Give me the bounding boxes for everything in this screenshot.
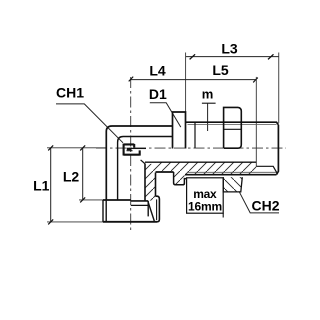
- body underside section outline: [156, 171, 174, 173]
- wire L2 extension: [79, 199, 103, 201]
- nut section top lines: [131, 200, 148, 202]
- label CH2: [239, 191, 280, 213]
- locknut facet line: [224, 128, 242, 130]
- dimension L1: [33, 145, 53, 224]
- svg-text:16mm: 16mm: [188, 199, 222, 213]
- wire L1 extension bottom: [47, 221, 103, 223]
- cone inner chamfer line: [156, 199, 158, 220]
- hatch horizontal body section: [145, 163, 256, 185]
- nut top edge: [103, 199, 131, 201]
- stud thread root line top: [188, 123, 277, 125]
- svg-text:D1: D1: [149, 86, 167, 102]
- hex CH1 profile: [173, 112, 186, 149]
- nut bottom edge: [103, 221, 157, 223]
- nut section vertical: [147, 201, 149, 217]
- stud thread root line bottom: [187, 171, 276, 173]
- dimension L4: [129, 63, 186, 82]
- retaining clip: [124, 144, 147, 156]
- body top-left outline with rounded corner: [106, 126, 172, 200]
- label m: [202, 87, 216, 131]
- svg-text:CH2: CH2: [251, 198, 279, 214]
- dimension L5: [186, 62, 258, 167]
- locknut top half: [224, 107, 242, 148]
- max 16mm box: [187, 178, 224, 218]
- hatch locknut section wedge CH2: [223, 177, 242, 192]
- body inner counterbore line: [118, 137, 173, 200]
- svg-text:CH1: CH1: [56, 85, 84, 101]
- stud top crest line: [186, 122, 279, 125]
- svg-text:L3: L3: [221, 40, 238, 56]
- hatch vertical branch wall section: [145, 164, 156, 201]
- hex bottom section outline: [174, 172, 187, 185]
- stud end face: [277, 125, 279, 175]
- stud bottom crest line: [185, 174, 277, 176]
- centerline horizontal axis: [96, 147, 286, 149]
- locknut section wedge outline: [223, 177, 242, 192]
- cone inner diagonal: [148, 201, 154, 221]
- thread start line: [194, 122, 196, 148]
- label D1: [149, 86, 181, 127]
- svg-text:m: m: [202, 87, 214, 102]
- centerline vertical axis: [130, 77, 132, 230]
- bore bottom line: [145, 161, 256, 163]
- svg-text:L5: L5: [212, 62, 229, 78]
- svg-text:L1: L1: [33, 177, 50, 193]
- branch wall left: [144, 164, 146, 201]
- branch wall right: [155, 173, 157, 197]
- cone outer profile: [156, 196, 160, 222]
- bore end step: [256, 166, 277, 173]
- dimension L3: [186, 40, 279, 123]
- dimension L2: [63, 145, 85, 202]
- svg-text:L4: L4: [149, 63, 166, 79]
- nut left face: [103, 200, 106, 222]
- wire L1 extension top: [47, 147, 106, 149]
- svg-text:L2: L2: [63, 168, 80, 184]
- bore corner chamfer: [141, 160, 146, 164]
- label CH1: [56, 85, 123, 143]
